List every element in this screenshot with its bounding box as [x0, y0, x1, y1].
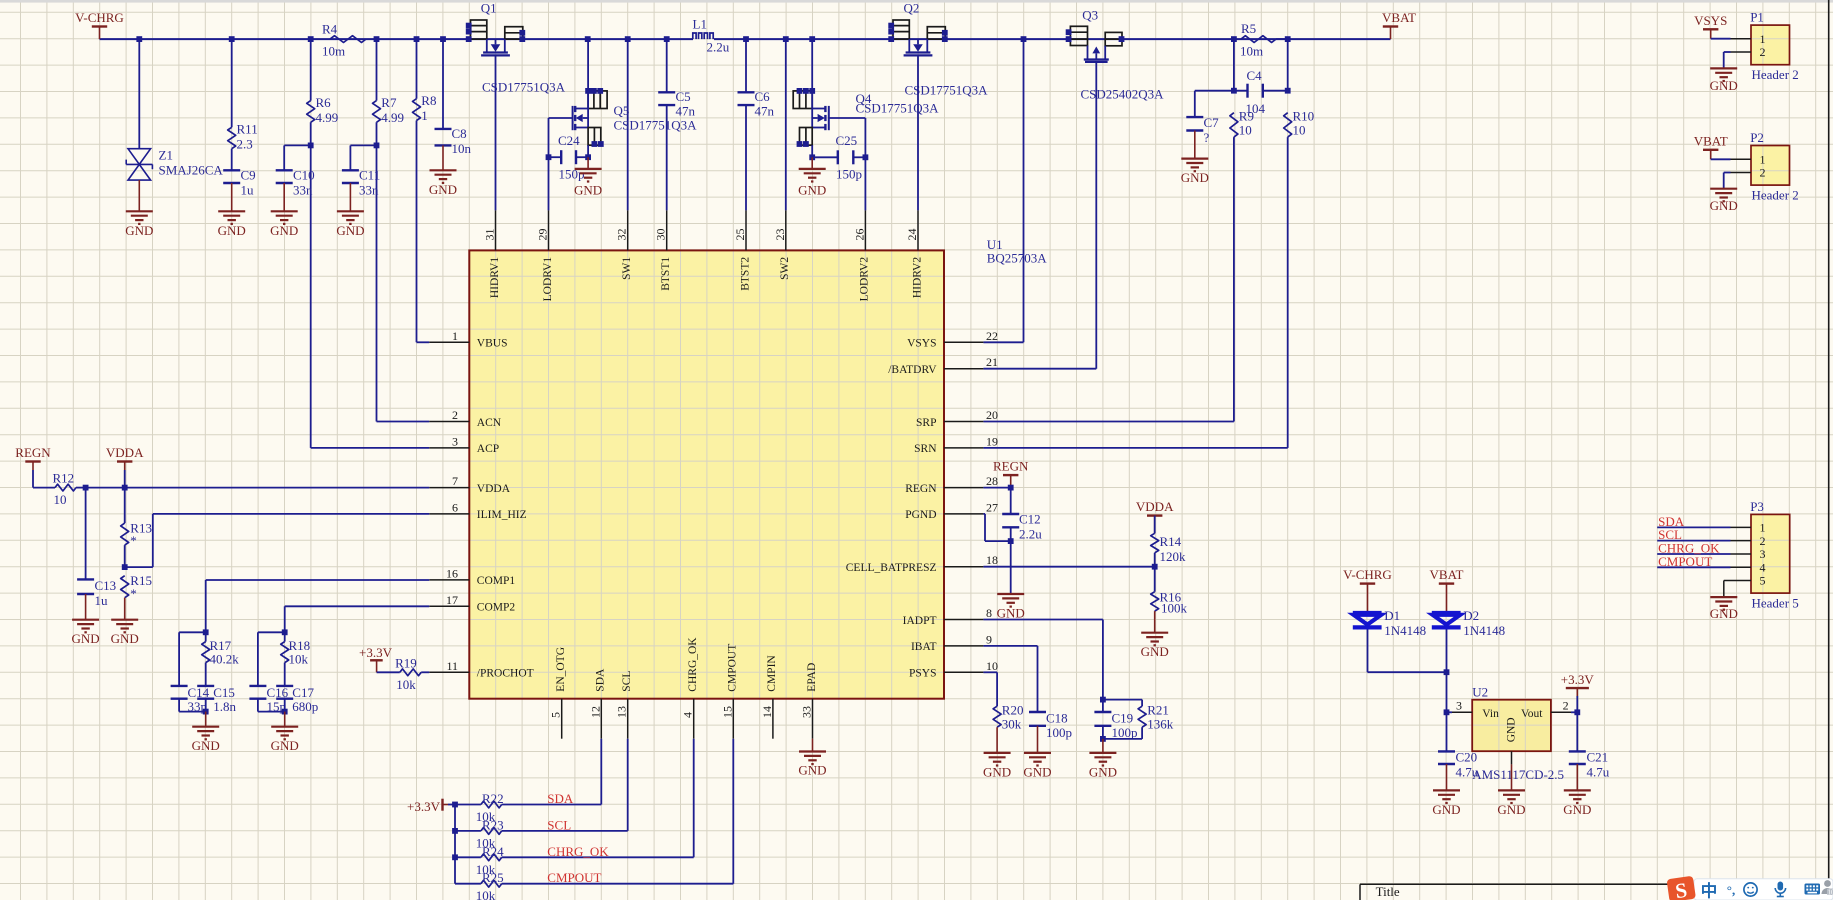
svg-text:1: 1 — [1760, 521, 1766, 535]
svg-text:CHRG_OK: CHRG_OK — [547, 844, 609, 859]
resistor R19 10k — [377, 656, 430, 693]
svg-text:14: 14 — [760, 706, 774, 718]
svg-text:R9: R9 — [1239, 109, 1254, 124]
svg-text:GND: GND — [1710, 198, 1738, 213]
svg-text:4.99: 4.99 — [316, 110, 339, 125]
svg-text:R4: R4 — [322, 22, 338, 37]
svg-text:C6: C6 — [755, 89, 771, 104]
wire SDA to P3 — [1657, 526, 1730, 528]
resistor R20 30k — [993, 703, 1023, 732]
svg-text:CSD17751Q3A: CSD17751Q3A — [905, 83, 989, 98]
svg-text:Q5: Q5 — [614, 103, 630, 118]
svg-text:10: 10 — [986, 659, 998, 673]
svg-text:C10: C10 — [293, 168, 315, 183]
svg-text:+3.3V: +3.3V — [407, 799, 441, 814]
component body fills (under grid) — [469, 250, 944, 698]
ground at P3 — [1710, 597, 1738, 621]
svg-text:6: 6 — [452, 500, 458, 514]
svg-text:40.2k: 40.2k — [210, 652, 240, 667]
wire CELL_BATPRESZ pin 18 — [983, 564, 1157, 570]
resistor R4 10m (input sense) — [322, 22, 366, 59]
svg-text:P2: P2 — [1750, 130, 1764, 145]
wire C6 to BTST2 pin 25 — [745, 105, 747, 210]
svg-text:CMPOUT: CMPOUT — [547, 870, 601, 885]
ground under C19 — [1089, 739, 1117, 780]
svg-text:Header 2: Header 2 — [1752, 67, 1799, 82]
wire VBAT to P2 pin 1 — [1711, 158, 1731, 160]
power port VBAT (at D2) — [1430, 567, 1464, 611]
svg-text:C25: C25 — [836, 133, 858, 148]
wire SW2 node to pin 23 — [785, 39, 787, 210]
U1 pin 22 (VSYS) — [907, 329, 998, 350]
wire R7 to ACN pin — [374, 122, 430, 421]
wire SW1 node to pin 32 — [627, 39, 629, 210]
svg-text:GND: GND — [983, 764, 1011, 779]
svg-text:REGN: REGN — [15, 445, 51, 460]
svg-text:C20: C20 — [1456, 750, 1478, 765]
resistor R16 100k — [1151, 567, 1188, 616]
svg-text:SDA: SDA — [595, 668, 607, 692]
node SCL label at P3 (red) — [1658, 527, 1682, 542]
wire P3 pin 5 to ground — [1724, 581, 1731, 598]
svg-text:Q2: Q2 — [904, 1, 920, 16]
svg-text:AMS1117CD-2.5: AMS1117CD-2.5 — [1472, 767, 1564, 782]
svg-text:680p: 680p — [292, 699, 318, 714]
svg-text:30: 30 — [654, 229, 668, 241]
svg-text:VDDA: VDDA — [106, 445, 144, 460]
svg-text:19: 19 — [986, 434, 998, 448]
svg-text:GND: GND — [1141, 644, 1169, 659]
svg-text:C5: C5 — [676, 89, 691, 104]
U1 pin 6 (ILIM_HIZ) — [429, 500, 526, 521]
resistor R25 10k — [455, 870, 504, 900]
transistor Q2 CSD17751Q3A (high-side FET 2) — [888, 1, 988, 98]
svg-text:Header 5: Header 5 — [1752, 596, 1799, 611]
svg-text:GND: GND — [1506, 717, 1518, 742]
resistor R9 10 — [1230, 109, 1254, 138]
wire Q5 gate to LODRV1 pin 29 — [549, 118, 573, 210]
svg-text:L1: L1 — [693, 17, 707, 32]
svg-text:BQ25703A: BQ25703A — [987, 251, 1048, 266]
svg-text:R6: R6 — [316, 95, 332, 110]
svg-text:P3: P3 — [1750, 499, 1764, 514]
capacitor C10 33n — [276, 145, 315, 197]
ground under Q4 source — [798, 157, 826, 197]
svg-text:8: 8 — [986, 606, 992, 620]
U1 pin 7 (VDDA) — [429, 474, 510, 495]
svg-text:EN_OTG: EN_OTG — [555, 647, 567, 692]
U1 pin 4 (CHRG_OK) — [681, 637, 699, 739]
svg-text:VSYS: VSYS — [907, 338, 936, 350]
resistor R24 10k — [455, 844, 504, 877]
power port V-CHRG (at D1) — [1343, 567, 1392, 611]
svg-text:25: 25 — [733, 229, 747, 241]
svg-text:4: 4 — [681, 712, 695, 718]
svg-text:SDA: SDA — [547, 791, 574, 806]
resistor R18 10k — [281, 632, 310, 686]
capacitor C17 680p — [276, 685, 318, 715]
wire Q4 source node — [809, 145, 815, 160]
resistor R23 10k — [455, 817, 504, 850]
ground at P2 — [1710, 189, 1738, 214]
svg-text:REGN: REGN — [905, 483, 937, 495]
svg-text:ILIM_HIZ: ILIM_HIZ — [477, 509, 527, 521]
svg-text:15: 15 — [720, 706, 734, 718]
svg-text:BTST2: BTST2 — [739, 257, 751, 291]
svg-text:10m: 10m — [1240, 44, 1263, 59]
svg-text:C18: C18 — [1046, 711, 1068, 726]
wire V-CHRG input rail (top horizontal bus) — [100, 38, 1391, 40]
svg-text:CSD17751Q3A: CSD17751Q3A — [482, 80, 566, 95]
regulator U2 AMS1117CD-2.5 — [1472, 685, 1564, 783]
power port +3.3V (at R19) — [359, 645, 393, 672]
U1 pin 5 (EN_OTG) — [549, 647, 567, 739]
capacitor C6 47n (BTST2) — [738, 39, 775, 118]
svg-text:4.7u: 4.7u — [1456, 765, 1479, 780]
U1 pin 13 (SCL) — [615, 671, 633, 739]
wire Q4 gate to LODRV2 pin 26 — [829, 118, 866, 210]
ground under COMP1 network — [192, 712, 220, 754]
svg-text:32: 32 — [615, 229, 629, 241]
svg-text:SCL: SCL — [547, 817, 571, 832]
svg-text:EPAD: EPAD — [806, 663, 818, 692]
U1 pin 19 (SRN) — [914, 434, 998, 455]
wire R10 to SRN pin 19 — [983, 137, 1287, 448]
svg-text:SRN: SRN — [914, 443, 937, 455]
svg-text:33n: 33n — [293, 183, 313, 198]
ground under U2 — [1497, 764, 1525, 817]
U1 pin 18 (CELL_BATPRESZ) — [846, 553, 998, 574]
svg-text:27: 27 — [986, 500, 998, 514]
capacitor C20 4.7u — [1438, 712, 1479, 779]
input-method toolbar (bottom right overlay) — [1667, 876, 1833, 900]
svg-text:100p: 100p — [1112, 725, 1138, 740]
svg-text:C19: C19 — [1112, 711, 1134, 726]
connector P1 Header 2 — [1731, 10, 1799, 83]
svg-text:5: 5 — [549, 712, 563, 718]
capacitor C21 4.7u — [1569, 750, 1610, 780]
svg-text:47n: 47n — [755, 104, 775, 119]
wire VSYS node to pin 22 — [983, 39, 1023, 342]
svg-text:3: 3 — [1760, 547, 1766, 561]
power port VBAT (top right) — [1382, 10, 1416, 39]
svg-text:VDDA: VDDA — [477, 483, 511, 495]
wire Q5 source node — [585, 145, 591, 160]
svg-text:LODRV2: LODRV2 — [859, 257, 871, 302]
svg-text:U2: U2 — [1472, 685, 1488, 700]
svg-text:10: 10 — [1239, 123, 1252, 138]
U1 pin 30 (BTST1) — [654, 210, 672, 290]
svg-text:1u: 1u — [95, 593, 109, 608]
svg-text:+3.3V: +3.3V — [1561, 672, 1595, 687]
svg-text:21: 21 — [986, 355, 998, 369]
svg-text:1N4148: 1N4148 — [1463, 623, 1505, 638]
svg-text:2: 2 — [1760, 534, 1766, 548]
resistor R7 4.99 — [373, 39, 405, 125]
U1 pin 12 (SDA) — [588, 668, 606, 739]
svg-text:C11: C11 — [359, 168, 380, 183]
ground under C13 — [72, 594, 100, 646]
wire SCL net to U1 — [502, 739, 628, 831]
svg-text:VSYS: VSYS — [1694, 13, 1727, 28]
svg-text:SW2: SW2 — [779, 257, 791, 280]
capacitor C15 1.8n — [197, 685, 236, 715]
capacitor C4 104 — [1246, 68, 1266, 116]
wire IBAT pin 9 — [983, 646, 1037, 712]
svg-text:11: 11 — [446, 659, 458, 673]
svg-text:C13: C13 — [95, 578, 117, 593]
svg-text:2: 2 — [452, 408, 458, 422]
node CHRG_OK label (red) — [547, 844, 609, 859]
svg-text:1u: 1u — [241, 183, 255, 198]
svg-text:33n: 33n — [359, 183, 379, 198]
svg-text:GND: GND — [1710, 606, 1738, 621]
node SDA label (red) — [547, 791, 574, 806]
capacitor C9 1u — [223, 168, 255, 198]
svg-text:R10: R10 — [1293, 109, 1315, 124]
svg-text:1: 1 — [452, 329, 458, 343]
capacitor C13 1u — [77, 488, 116, 608]
capacitor C16 15p — [249, 632, 288, 714]
power port V-CHRG (top left) — [75, 10, 124, 39]
svg-text:100p: 100p — [1046, 725, 1072, 740]
svg-text:VBAT: VBAT — [1382, 10, 1416, 25]
svg-text:R22: R22 — [482, 791, 504, 806]
svg-text:2.3: 2.3 — [237, 137, 253, 152]
svg-text:1N4148: 1N4148 — [1384, 623, 1426, 638]
svg-text:18: 18 — [986, 553, 998, 567]
svg-text:IBAT: IBAT — [911, 641, 937, 653]
svg-text:Header 2: Header 2 — [1752, 188, 1799, 203]
wire REGN pin 28 — [983, 485, 1013, 491]
ground under C12 — [997, 541, 1025, 620]
connector P2 Header 2 — [1731, 130, 1799, 203]
U1 pin 25 (BTST2) — [733, 210, 751, 290]
capacitor C12 2.2u — [1002, 488, 1042, 544]
svg-text:R8: R8 — [421, 93, 436, 108]
svg-text:GND: GND — [798, 763, 826, 778]
wire CMPOUT to P3 — [1657, 566, 1730, 568]
wire R8 to VBUS pin 1 — [417, 121, 430, 343]
svg-text:120k: 120k — [1160, 549, 1187, 564]
node CHRG_OK label at P3 (red) — [1658, 541, 1720, 556]
svg-text:SMAJ26CA: SMAJ26CA — [159, 163, 224, 178]
wire COMP2 pin 17 — [282, 606, 430, 635]
svg-text:ACN: ACN — [477, 417, 502, 429]
resistor R12 10 — [33, 470, 86, 507]
svg-text:R23: R23 — [482, 817, 504, 832]
wire R5 parallel network — [1195, 39, 1291, 94]
wire CMPOUT net to U1 — [502, 739, 734, 884]
wire IADPT pin 8 — [983, 620, 1105, 703]
wire Z1 branch — [138, 39, 140, 149]
U2 GND pin — [1511, 751, 1513, 764]
ground under COMP2 network — [271, 712, 299, 754]
svg-text:7: 7 — [452, 474, 458, 488]
svg-text:HIDRV1: HIDRV1 — [489, 257, 501, 298]
connector P3 Header 5 — [1731, 499, 1799, 611]
svg-text:*: * — [130, 533, 137, 548]
svg-text:4.99: 4.99 — [381, 110, 404, 125]
U1 pin 1 (VBUS) — [429, 329, 507, 350]
svg-text:CMPOUT: CMPOUT — [727, 644, 739, 692]
svg-text:10k: 10k — [289, 652, 309, 667]
svg-text:C12: C12 — [1019, 512, 1041, 527]
U2 pin 3 (Vin) — [1452, 699, 1472, 713]
wire CHRG_OK net to U1 — [502, 739, 694, 858]
svg-text:D2: D2 — [1463, 608, 1479, 623]
resistor R21 136k — [1103, 700, 1174, 739]
svg-text:C7: C7 — [1204, 115, 1220, 130]
wire Q2 gate to HIDRV2 — [917, 55, 919, 210]
svg-text:R21: R21 — [1147, 703, 1169, 718]
svg-text:V-CHRG: V-CHRG — [75, 10, 124, 25]
wire ILIM_HIZ pin 6 — [122, 514, 430, 570]
U1 pin 20 (SRP) — [916, 408, 998, 429]
svg-text:Q3: Q3 — [1082, 8, 1098, 23]
U2 pin 2 (Vout) — [1551, 699, 1571, 713]
svg-text:CELL_BATPRESZ: CELL_BATPRESZ — [846, 562, 937, 574]
svg-text:GND: GND — [125, 223, 153, 238]
wire P1 pin 2 to ground — [1724, 52, 1731, 68]
power port +3.3V (at U2 Vout) — [1561, 672, 1595, 696]
svg-text:Title: Title — [1376, 884, 1400, 899]
U1 pin 32 (SW1) — [615, 210, 633, 280]
ground under C7 — [1181, 131, 1209, 186]
svg-text:GND: GND — [192, 738, 220, 753]
svg-text:100k: 100k — [1161, 601, 1188, 616]
ground under C9 — [218, 183, 246, 238]
wire C5 to BTST1 pin 30 — [666, 105, 668, 210]
svg-text:VBAT: VBAT — [1694, 133, 1728, 148]
svg-text:R20: R20 — [1002, 703, 1024, 718]
svg-text:13: 13 — [615, 706, 629, 718]
svg-text:2.2u: 2.2u — [707, 40, 730, 55]
svg-text:4.7u: 4.7u — [1587, 765, 1610, 780]
svg-text:GND: GND — [111, 631, 139, 646]
U1 pin 9 (IBAT) — [911, 632, 992, 653]
svg-text:中: 中 — [1701, 881, 1718, 900]
svg-text:10n: 10n — [452, 141, 472, 156]
ground under C20 — [1432, 764, 1460, 817]
wire R6 to ACP pin — [308, 122, 430, 448]
svg-text:1.8n: 1.8n — [213, 699, 236, 714]
svg-text:150p: 150p — [836, 167, 862, 182]
power port VDDA (left) — [106, 445, 144, 470]
svg-text:2: 2 — [1563, 699, 1569, 713]
wire SCL to P3 — [1657, 540, 1730, 542]
diode D2 1N4148 — [1432, 608, 1505, 638]
svg-text:10k: 10k — [476, 888, 496, 900]
U1 pin 16 (COMP1) — [429, 566, 515, 587]
svg-text:GND: GND — [798, 182, 826, 197]
TVS diode Z1 SMAJ26CA — [126, 148, 223, 181]
svg-text:+3.3V: +3.3V — [359, 645, 393, 660]
svg-text:GND: GND — [1710, 78, 1738, 93]
svg-text:CMPIN: CMPIN — [766, 655, 778, 692]
capacitor C7 ? — [1186, 91, 1219, 145]
wire Q3 gate to /BATDRV pin 21 — [983, 62, 1096, 369]
svg-text:/PROCHOT: /PROCHOT — [477, 668, 534, 680]
svg-text:33: 33 — [800, 706, 814, 718]
svg-text:29: 29 — [536, 229, 550, 241]
U1 pin 17 (COMP2) — [429, 593, 515, 614]
wire PSYS pin 10 — [983, 672, 997, 706]
U1 pin 27 (PGND) — [905, 500, 998, 521]
svg-text:C4: C4 — [1247, 68, 1263, 83]
svg-text:CSD17751Q3A: CSD17751Q3A — [856, 101, 940, 116]
power port +3.3V (pull-up bus) — [407, 799, 448, 814]
svg-text:24: 24 — [905, 229, 919, 241]
ground under C18 — [1023, 726, 1051, 780]
U1 pin 10 (PSYS) — [909, 659, 998, 680]
svg-text:20: 20 — [986, 408, 998, 422]
resistor R17 40.2k — [202, 632, 240, 686]
U1 pin 28 (REGN) — [905, 474, 998, 495]
svg-text:GND: GND — [1089, 764, 1117, 779]
svg-text:C15: C15 — [213, 685, 235, 700]
capacitor C11 33n — [342, 145, 380, 197]
svg-text:GND: GND — [218, 223, 246, 238]
ground under Q5 source — [574, 157, 602, 197]
svg-text:COMP1: COMP1 — [477, 575, 516, 587]
capacitor C19 100p — [1094, 700, 1137, 742]
svg-text:22: 22 — [986, 329, 998, 343]
svg-text:10: 10 — [54, 492, 67, 507]
resistor R14 120k — [1151, 516, 1186, 567]
svg-text:GND: GND — [1563, 802, 1591, 817]
svg-text:GND: GND — [271, 738, 299, 753]
svg-text:1: 1 — [421, 108, 428, 123]
svg-text:PSYS: PSYS — [909, 668, 937, 680]
svg-text:30k: 30k — [1002, 717, 1022, 732]
wire P2 pin 2 to ground — [1724, 173, 1731, 189]
U1 pin 11 (/PROCHOT) — [429, 659, 533, 680]
resistor R6 4.99 — [307, 39, 339, 125]
capacitor C8 10n — [435, 39, 472, 156]
svg-text:28: 28 — [986, 474, 998, 488]
transistor Q5 CSD17751Q3A (low-side FET 1) — [573, 39, 698, 147]
svg-text:12: 12 — [588, 706, 602, 718]
svg-text:47n: 47n — [676, 104, 696, 119]
svg-text:Q1: Q1 — [481, 1, 497, 16]
svg-text:16: 16 — [446, 566, 458, 580]
svg-text:V-CHRG: V-CHRG — [1343, 567, 1392, 582]
ground under R20 — [983, 727, 1011, 779]
svg-text:3: 3 — [452, 434, 458, 448]
title block — [1360, 884, 1833, 900]
svg-text:10k: 10k — [396, 677, 416, 692]
svg-text:SW1: SW1 — [621, 257, 633, 280]
U1 pin 24 (HIDRV2) — [905, 210, 923, 298]
ground at P1 — [1710, 68, 1738, 93]
svg-text:P1: P1 — [1750, 10, 1764, 25]
svg-text:2.2u: 2.2u — [1019, 527, 1042, 542]
U1 pin 2 (ACN) — [429, 408, 501, 429]
resistor R5 10m (battery sense) — [1240, 21, 1288, 59]
svg-text:R11: R11 — [237, 122, 258, 137]
capacitor C5 47n (BTST1) — [658, 39, 695, 118]
top scrollbar strip — [0, 0, 1833, 3]
resistor R13 * — [121, 488, 152, 567]
transistor Q4 CSD17751Q3A (low-side FET 2) — [793, 39, 939, 147]
svg-text:?: ? — [1204, 130, 1210, 145]
svg-text:C17: C17 — [292, 685, 314, 700]
capacitor C18 100p — [1029, 711, 1072, 741]
svg-text:SCL: SCL — [621, 671, 633, 692]
svg-text:ACP: ACP — [477, 443, 499, 455]
ground under R16 — [1141, 611, 1169, 659]
